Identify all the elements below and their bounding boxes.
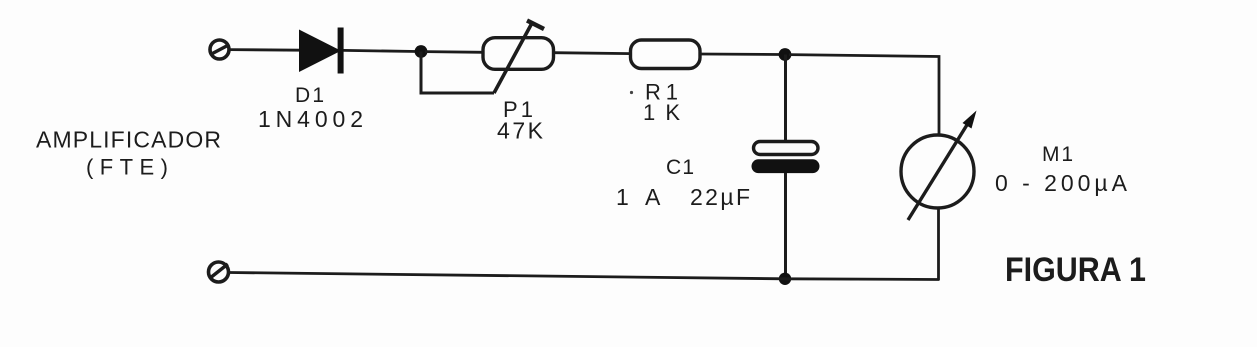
- bottom rail right segment: [785, 277, 940, 281]
- svg-text:1N4002: 1N4002: [258, 106, 363, 132]
- bottom rail left segment: [230, 273, 786, 279]
- svg-text:0 - 200µA: 0 - 200µA: [995, 170, 1128, 196]
- meter M1 circle: [901, 135, 974, 208]
- wire node B to meter corner: [789, 55, 939, 135]
- P1 wiper diagonal: [494, 23, 532, 93]
- svg-text:22µF: 22µF: [690, 184, 750, 210]
- wire D1 cathode to node A: [344, 50, 419, 51]
- node B (R1 / C1 / M1 junction): [779, 48, 792, 61]
- svg-text:1: 1: [616, 184, 629, 210]
- meter M1 needle arrowhead: [963, 111, 977, 129]
- ink speck left of R1: [630, 91, 633, 94]
- node A (D1 cathode / P1 wiper junction): [415, 45, 428, 58]
- wire node A to P1 body: [425, 50, 484, 54]
- meter M1 needle diagonal: [908, 120, 970, 220]
- wire meter bottom to bottom rail: [937, 208, 940, 280]
- svg-text:AMPLIFICADOR: AMPLIFICADOR: [36, 127, 221, 153]
- potentiometer P1 (trimmer body): [483, 38, 554, 70]
- resistor R1: [631, 40, 701, 69]
- svg-text:A: A: [645, 184, 661, 210]
- wire T1 to D1 anode: [230, 48, 302, 51]
- capacitor C1 negative plate (filled): [752, 159, 820, 173]
- svg-text:(FTE): (FTE): [86, 155, 168, 180]
- wire P1 to R1: [554, 51, 632, 55]
- svg-text:1K: 1K: [643, 100, 680, 125]
- svg-text:C1: C1: [666, 156, 694, 179]
- terminal T1 (top input): [210, 40, 229, 59]
- svg-text:M1: M1: [1042, 143, 1073, 166]
- diode D1: [299, 28, 344, 74]
- capacitor C1 positive plate: [754, 142, 819, 155]
- svg-text:D1: D1: [295, 84, 324, 107]
- svg-text:47K: 47K: [497, 118, 544, 144]
- wire node B down to C1: [784, 55, 787, 144]
- wire R1 to node B: [700, 53, 781, 56]
- wire C1 to bottom junction: [784, 173, 787, 279]
- wire node A down-branch to P1 wiper: [421, 52, 494, 94]
- bottom rail junction dot: [779, 273, 791, 285]
- P1 wiper slot bar: [527, 21, 544, 30]
- svg-text:FIGURA 1: FIGURA 1: [1005, 251, 1146, 289]
- terminal T2 (bottom input): [209, 262, 229, 282]
